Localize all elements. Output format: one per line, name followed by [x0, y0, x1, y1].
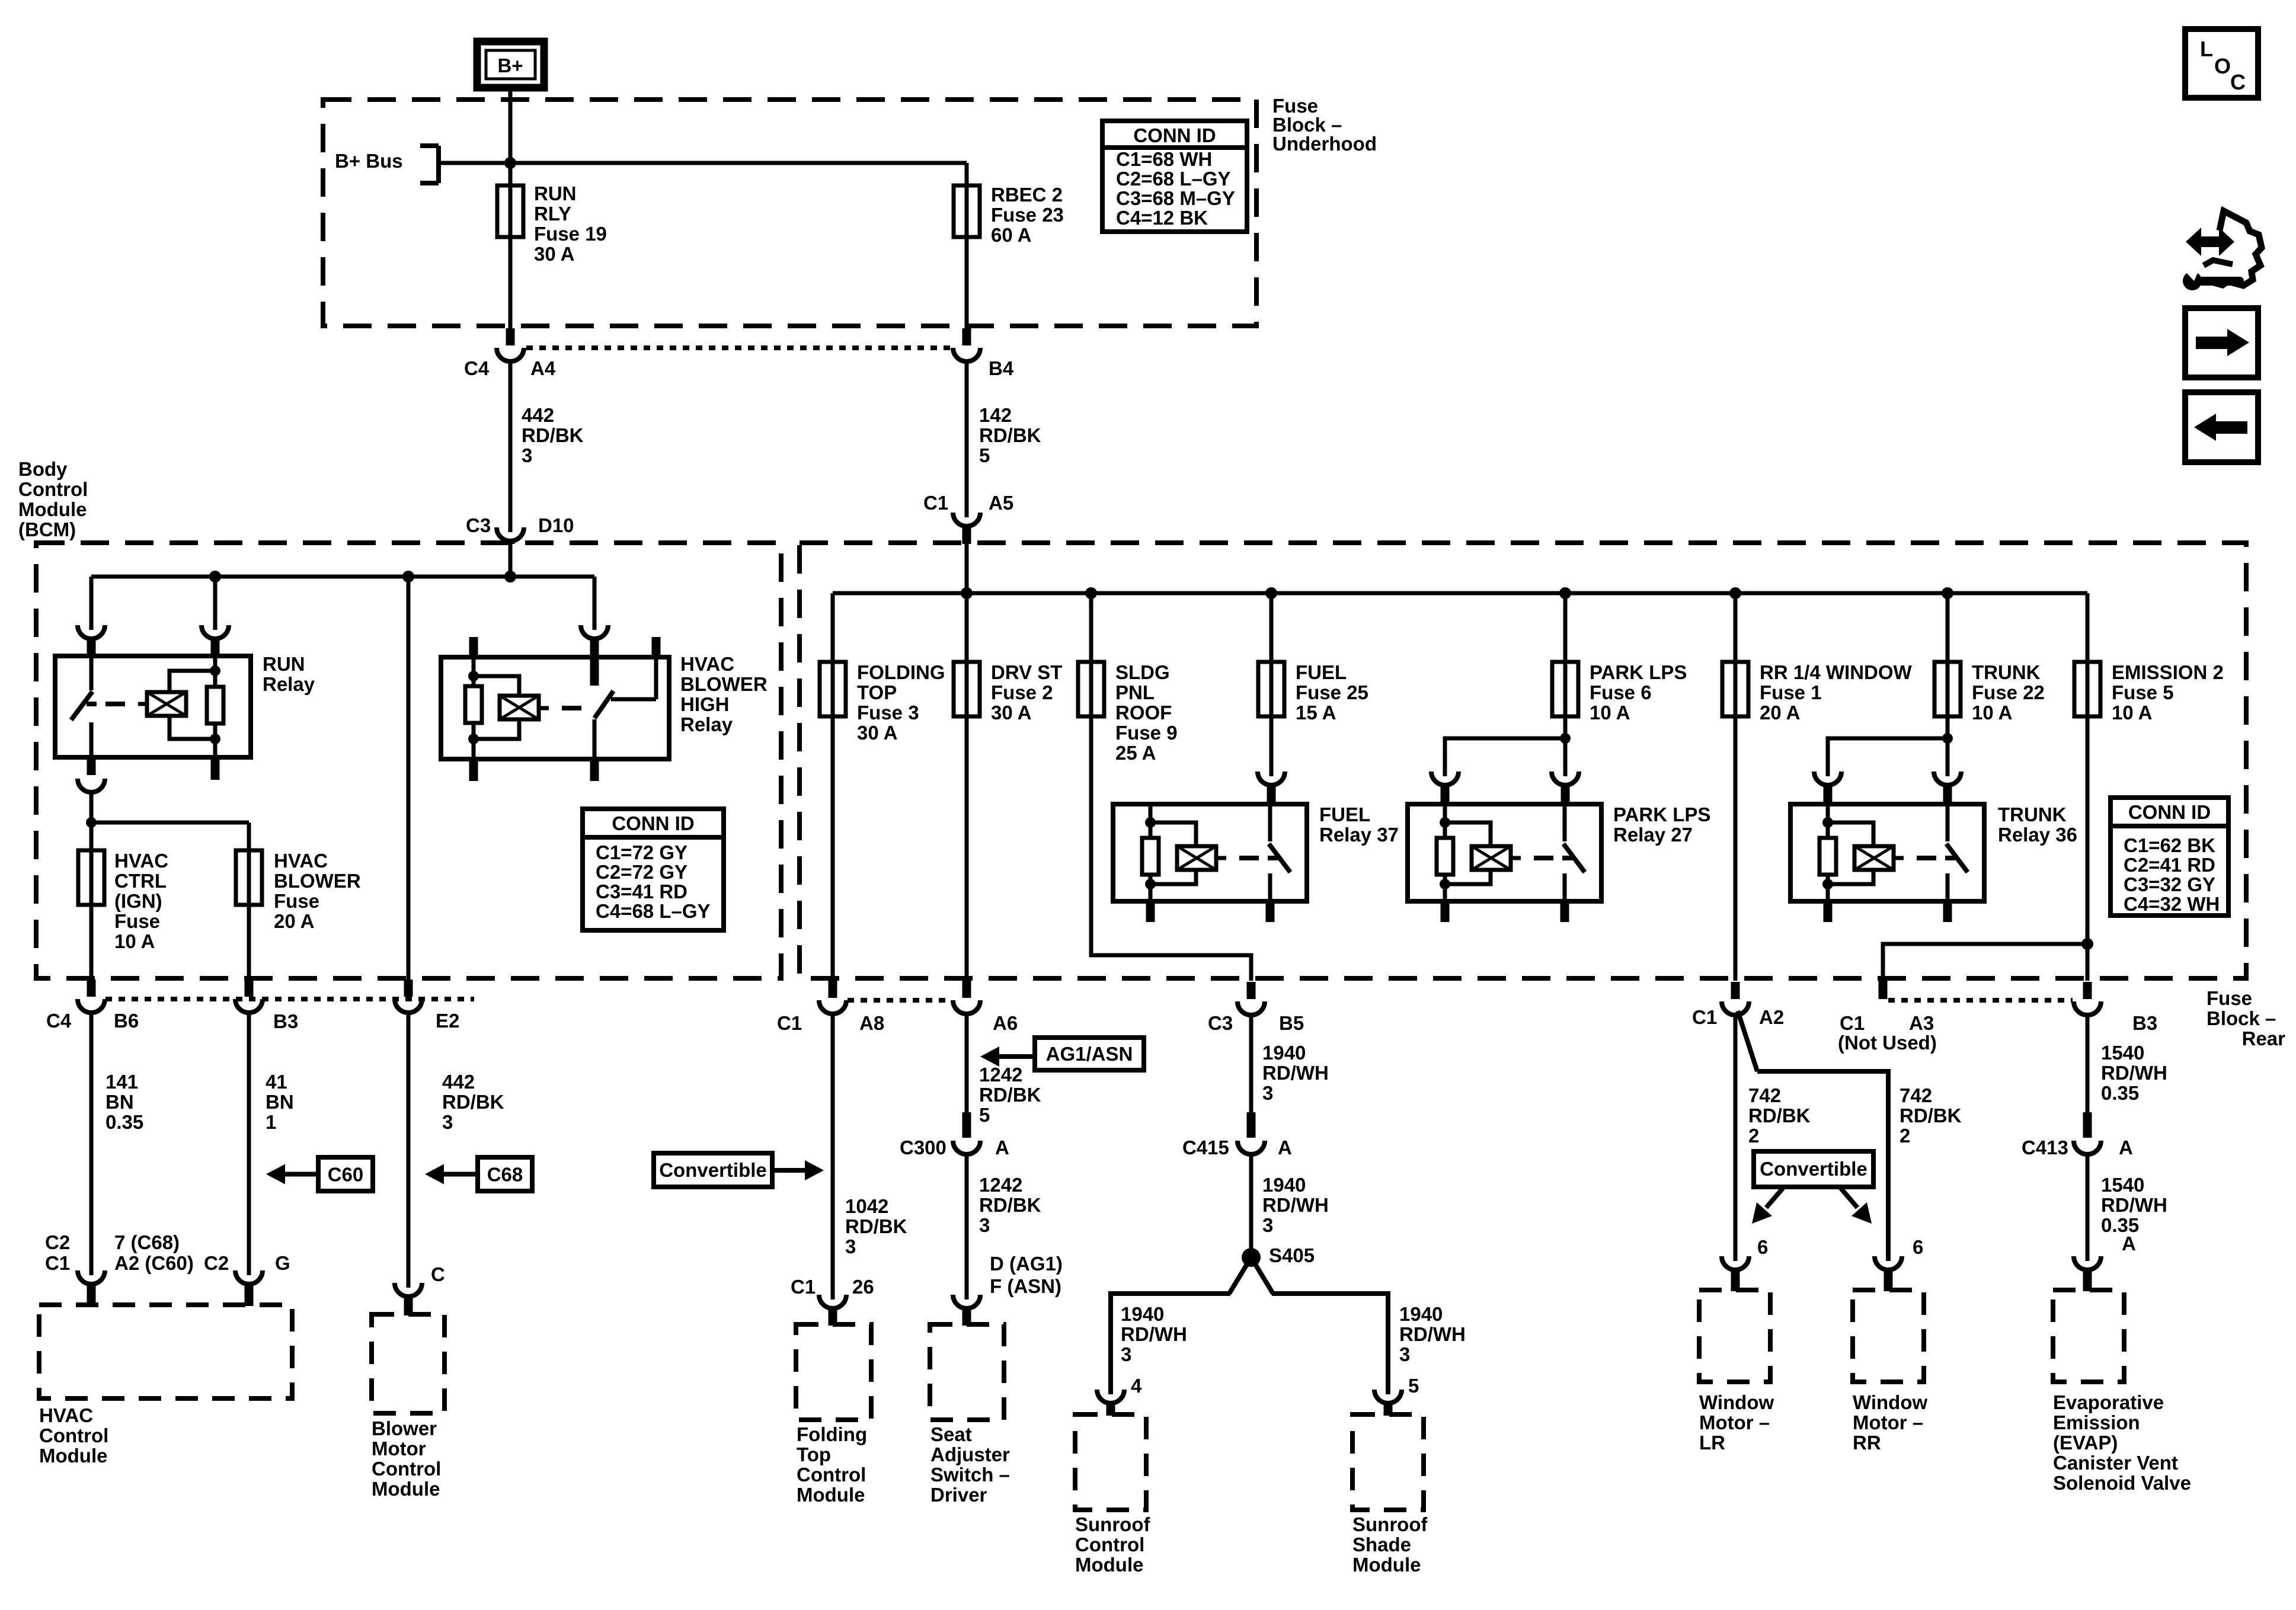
- svg-text:B+ Bus: B+ Bus: [335, 150, 403, 172]
- svg-text:BN: BN: [266, 1091, 294, 1113]
- svg-text:1940: 1940: [1262, 1042, 1306, 1064]
- svg-text:10 A: 10 A: [114, 930, 155, 952]
- svg-text:FUEL: FUEL: [1319, 804, 1370, 825]
- svg-text:Folding: Folding: [797, 1423, 867, 1445]
- svg-text:1: 1: [266, 1111, 276, 1133]
- svg-text:10 A: 10 A: [1972, 702, 2012, 724]
- svg-text:Motor: Motor: [372, 1438, 426, 1459]
- svg-text:30 A: 30 A: [534, 243, 574, 265]
- svg-text:Fuse 2: Fuse 2: [991, 681, 1053, 703]
- svg-text:C1=72 GY: C1=72 GY: [596, 841, 687, 863]
- svg-text:C3=41 RD: C3=41 RD: [596, 881, 687, 902]
- svg-text:A6: A6: [993, 1012, 1018, 1034]
- svg-text:(BCM): (BCM): [18, 518, 76, 540]
- svg-text:1242: 1242: [979, 1064, 1022, 1086]
- svg-text:E2: E2: [436, 1010, 459, 1032]
- svg-text:20 A: 20 A: [1760, 702, 1800, 724]
- svg-text:C2: C2: [45, 1231, 70, 1253]
- svg-text:Module: Module: [18, 498, 87, 520]
- svg-text:Convertible: Convertible: [659, 1159, 767, 1181]
- svg-text:G: G: [275, 1252, 290, 1274]
- svg-text:RD/WH: RD/WH: [2101, 1194, 2167, 1216]
- svg-text:Relay: Relay: [263, 673, 315, 695]
- svg-text:B3: B3: [2132, 1012, 2157, 1034]
- svg-text:10 A: 10 A: [2112, 702, 2152, 724]
- svg-text:C1: C1: [791, 1276, 816, 1298]
- svg-text:C2: C2: [204, 1252, 229, 1274]
- svg-text:Relay 27: Relay 27: [1613, 824, 1693, 846]
- svg-text:HVAC: HVAC: [274, 850, 328, 872]
- svg-text:C413: C413: [2022, 1137, 2068, 1158]
- svg-text:0.35: 0.35: [105, 1111, 143, 1133]
- svg-text:742: 742: [1900, 1084, 1932, 1106]
- svg-text:A2: A2: [1759, 1006, 1784, 1028]
- svg-text:DRV ST: DRV ST: [991, 661, 1062, 683]
- svg-text:Rear: Rear: [2242, 1028, 2286, 1049]
- svg-text:RUN: RUN: [263, 653, 305, 675]
- svg-text:15 A: 15 A: [1296, 702, 1336, 724]
- svg-text:C3: C3: [466, 514, 491, 536]
- svg-text:B4: B4: [989, 357, 1014, 379]
- svg-text:10 A: 10 A: [1590, 702, 1630, 724]
- svg-text:AG1/ASN: AG1/ASN: [1046, 1043, 1133, 1065]
- svg-text:C3=32 GY: C3=32 GY: [2124, 873, 2215, 895]
- svg-text:TRUNK: TRUNK: [1972, 661, 2041, 683]
- svg-text:142: 142: [979, 404, 1012, 426]
- svg-text:PARK LPS: PARK LPS: [1613, 804, 1710, 825]
- svg-text:A: A: [995, 1137, 1009, 1158]
- svg-text:Relay 37: Relay 37: [1319, 824, 1399, 846]
- svg-text:442: 442: [442, 1071, 475, 1093]
- svg-text:A4: A4: [530, 357, 556, 379]
- svg-text:Motor –: Motor –: [1853, 1411, 1923, 1433]
- svg-text:RLY: RLY: [534, 203, 571, 225]
- svg-text:BN: BN: [105, 1091, 134, 1113]
- svg-text:1940: 1940: [1262, 1174, 1306, 1196]
- svg-text:C1: C1: [777, 1012, 802, 1034]
- svg-text:D (AG1): D (AG1): [990, 1253, 1063, 1275]
- svg-text:20 A: 20 A: [274, 910, 314, 932]
- svg-text:30 A: 30 A: [857, 722, 897, 744]
- svg-text:RR 1/4 WINDOW: RR 1/4 WINDOW: [1760, 661, 1913, 683]
- svg-text:4: 4: [1131, 1375, 1142, 1397]
- svg-text:A2 (C60): A2 (C60): [114, 1252, 194, 1274]
- svg-text:C1: C1: [923, 492, 948, 514]
- svg-text:C4=68 L–GY: C4=68 L–GY: [596, 900, 711, 922]
- svg-text:0.35: 0.35: [2101, 1082, 2139, 1104]
- svg-text:C300: C300: [900, 1137, 946, 1158]
- svg-text:3: 3: [979, 1214, 990, 1236]
- svg-text:RD/WH: RD/WH: [1399, 1323, 1466, 1345]
- svg-text:Emission: Emission: [2053, 1411, 2140, 1433]
- svg-text:BLOWER: BLOWER: [274, 870, 361, 892]
- svg-text:S405: S405: [1269, 1244, 1315, 1266]
- svg-text:Module: Module: [797, 1484, 865, 1506]
- svg-text:Canister Vent: Canister Vent: [2053, 1452, 2178, 1474]
- svg-text:25 A: 25 A: [1115, 742, 1156, 764]
- svg-text:C4=12 BK: C4=12 BK: [1116, 207, 1208, 229]
- svg-text:Switch –: Switch –: [930, 1464, 1010, 1486]
- svg-text:Fuse 25: Fuse 25: [1296, 681, 1368, 703]
- svg-text:RD/WH: RD/WH: [2101, 1062, 2167, 1084]
- svg-text:Relay 36: Relay 36: [1998, 824, 2077, 846]
- svg-text:Window: Window: [1853, 1391, 1927, 1413]
- svg-text:C: C: [2230, 70, 2246, 94]
- svg-text:TRUNK: TRUNK: [1998, 804, 2067, 825]
- svg-text:A8: A8: [859, 1012, 884, 1034]
- svg-text:Motor –: Motor –: [1699, 1411, 1770, 1433]
- svg-text:C: C: [431, 1263, 445, 1285]
- svg-text:RD/BK: RD/BK: [522, 424, 584, 446]
- svg-text:742: 742: [1748, 1084, 1781, 1106]
- svg-text:3: 3: [845, 1235, 856, 1257]
- svg-text:2: 2: [1900, 1125, 1910, 1147]
- svg-text:Block –: Block –: [2207, 1007, 2276, 1029]
- svg-text:Module: Module: [39, 1445, 107, 1467]
- svg-text:FOLDING: FOLDING: [857, 661, 945, 683]
- svg-text:CONN ID: CONN ID: [612, 812, 694, 834]
- svg-text:5: 5: [979, 1104, 990, 1126]
- svg-text:3: 3: [1399, 1343, 1410, 1365]
- svg-text:A: A: [2122, 1233, 2136, 1254]
- svg-text:B5: B5: [1279, 1012, 1304, 1034]
- svg-text:(EVAP): (EVAP): [2053, 1432, 2118, 1454]
- svg-text:141: 141: [105, 1071, 138, 1093]
- svg-text:RD/WH: RD/WH: [1262, 1194, 1329, 1216]
- svg-text:ROOF: ROOF: [1115, 702, 1172, 724]
- svg-text:Fuse 3: Fuse 3: [857, 702, 919, 724]
- svg-text:RD/WH: RD/WH: [1262, 1062, 1329, 1084]
- svg-text:D10: D10: [538, 514, 574, 536]
- svg-text:EMISSION 2: EMISSION 2: [2112, 661, 2224, 683]
- svg-text:Adjuster: Adjuster: [930, 1443, 1010, 1465]
- svg-text:Fuse 19: Fuse 19: [534, 223, 607, 245]
- svg-text:C1=62 BK: C1=62 BK: [2124, 834, 2215, 856]
- svg-text:RD/BK: RD/BK: [1900, 1105, 1962, 1126]
- svg-text:HVAC: HVAC: [39, 1404, 93, 1426]
- svg-text:Fuse: Fuse: [114, 910, 160, 932]
- svg-text:Fuse: Fuse: [2207, 987, 2252, 1009]
- svg-text:Relay: Relay: [680, 713, 733, 735]
- svg-text:Driver: Driver: [930, 1484, 987, 1506]
- svg-text:C60: C60: [328, 1164, 364, 1186]
- svg-text:7 (C68): 7 (C68): [114, 1231, 180, 1253]
- svg-text:Body: Body: [18, 458, 68, 480]
- svg-text:CONN ID: CONN ID: [1133, 124, 1216, 146]
- svg-text:RD/WH: RD/WH: [1121, 1323, 1187, 1345]
- svg-text:C3=68 M–GY: C3=68 M–GY: [1116, 187, 1235, 209]
- svg-text:Fuse 1: Fuse 1: [1760, 681, 1822, 703]
- svg-text:CONN ID: CONN ID: [2128, 801, 2211, 823]
- svg-text:3: 3: [442, 1111, 453, 1133]
- svg-text:41: 41: [266, 1071, 287, 1093]
- svg-text:RD/BK: RD/BK: [442, 1091, 504, 1113]
- svg-text:RD/BK: RD/BK: [979, 424, 1041, 446]
- svg-text:C4: C4: [46, 1010, 72, 1032]
- svg-text:C4: C4: [464, 357, 490, 379]
- svg-text:1540: 1540: [2101, 1042, 2144, 1064]
- svg-text:B6: B6: [114, 1010, 139, 1032]
- svg-text:C2=72 GY: C2=72 GY: [596, 861, 687, 883]
- svg-text:Window: Window: [1699, 1391, 1774, 1413]
- svg-text:HVAC: HVAC: [114, 850, 168, 872]
- svg-text:Fuse 6: Fuse 6: [1590, 681, 1652, 703]
- svg-text:RD/BK: RD/BK: [1748, 1105, 1811, 1126]
- svg-text:Fuse 9: Fuse 9: [1115, 722, 1178, 744]
- svg-text:Fuse 5: Fuse 5: [2112, 681, 2174, 703]
- svg-text:6: 6: [1913, 1236, 1923, 1258]
- svg-text:Module: Module: [372, 1478, 440, 1500]
- svg-text:O: O: [2214, 54, 2231, 78]
- svg-text:1042: 1042: [845, 1195, 888, 1217]
- svg-text:(Not Used): (Not Used): [1838, 1032, 1937, 1054]
- svg-text:RUN: RUN: [534, 183, 577, 204]
- svg-text:A: A: [2119, 1137, 2133, 1158]
- svg-text:1940: 1940: [1399, 1303, 1443, 1325]
- svg-text:C415: C415: [1182, 1137, 1229, 1158]
- svg-text:442: 442: [522, 404, 554, 426]
- svg-text:Control: Control: [372, 1458, 441, 1480]
- svg-text:1940: 1940: [1121, 1303, 1164, 1325]
- svg-text:26: 26: [852, 1276, 874, 1298]
- svg-text:60 A: 60 A: [991, 224, 1031, 246]
- svg-text:HIGH: HIGH: [680, 693, 730, 715]
- svg-text:3: 3: [1121, 1343, 1131, 1365]
- svg-text:RD/BK: RD/BK: [979, 1084, 1041, 1106]
- svg-text:Module: Module: [1352, 1554, 1421, 1576]
- svg-text:Underhood: Underhood: [1272, 133, 1377, 155]
- svg-text:6: 6: [1757, 1236, 1768, 1258]
- svg-text:1540: 1540: [2101, 1174, 2144, 1196]
- svg-text:RD/BK: RD/BK: [979, 1194, 1041, 1216]
- svg-text:Control: Control: [39, 1425, 108, 1446]
- svg-text:C2=41 RD: C2=41 RD: [2124, 854, 2215, 876]
- svg-text:C4=32 WH: C4=32 WH: [2124, 893, 2220, 915]
- svg-text:Control: Control: [1075, 1534, 1144, 1555]
- svg-text:3: 3: [1262, 1082, 1273, 1104]
- svg-text:TOP: TOP: [857, 681, 897, 703]
- svg-text:C68: C68: [487, 1164, 523, 1186]
- svg-text:L: L: [2200, 37, 2213, 61]
- svg-text:Fuse 22: Fuse 22: [1972, 681, 2045, 703]
- svg-text:CTRL: CTRL: [114, 870, 167, 892]
- svg-text:C1: C1: [1692, 1006, 1717, 1028]
- svg-text:(IGN): (IGN): [114, 890, 162, 912]
- svg-text:3: 3: [522, 444, 532, 466]
- svg-text:A: A: [1278, 1137, 1292, 1158]
- svg-text:Module: Module: [1075, 1554, 1143, 1576]
- svg-text:C1: C1: [45, 1252, 70, 1274]
- svg-text:C2=68 L–GY: C2=68 L–GY: [1116, 168, 1231, 190]
- svg-text:Sunroof: Sunroof: [1075, 1513, 1150, 1535]
- svg-text:HVAC: HVAC: [680, 653, 734, 675]
- svg-text:F (ASN): F (ASN): [990, 1275, 1061, 1297]
- svg-text:Top: Top: [797, 1443, 831, 1465]
- svg-text:Evaporative: Evaporative: [2053, 1391, 2164, 1413]
- svg-text:Control: Control: [797, 1464, 866, 1486]
- svg-text:LR: LR: [1699, 1432, 1725, 1454]
- svg-text:RD/BK: RD/BK: [845, 1215, 907, 1237]
- svg-text:1242: 1242: [979, 1174, 1022, 1196]
- svg-text:2: 2: [1748, 1125, 1759, 1147]
- svg-text:Blower: Blower: [372, 1417, 437, 1439]
- svg-text:RR: RR: [1853, 1432, 1881, 1454]
- svg-text:Solenoid Valve: Solenoid Valve: [2053, 1472, 2191, 1494]
- svg-text:Convertible: Convertible: [1760, 1158, 1868, 1180]
- svg-text:Seat: Seat: [930, 1423, 972, 1445]
- svg-text:Fuse: Fuse: [274, 890, 319, 912]
- svg-text:BLOWER: BLOWER: [680, 673, 768, 695]
- svg-text:C1: C1: [1840, 1012, 1865, 1034]
- svg-text:Fuse 23: Fuse 23: [991, 204, 1064, 226]
- svg-text:Sunroof: Sunroof: [1352, 1513, 1428, 1535]
- svg-text:Control: Control: [18, 478, 88, 500]
- svg-text:PNL: PNL: [1115, 681, 1155, 703]
- svg-text:B+: B+: [497, 55, 523, 76]
- svg-text:RBEC 2: RBEC 2: [991, 184, 1063, 206]
- svg-text:A3: A3: [1909, 1012, 1934, 1034]
- svg-text:SLDG: SLDG: [1115, 661, 1170, 683]
- svg-text:3: 3: [1262, 1214, 1273, 1236]
- svg-text:A5: A5: [989, 492, 1013, 514]
- svg-text:PARK LPS: PARK LPS: [1590, 661, 1687, 683]
- svg-text:B3: B3: [273, 1010, 298, 1032]
- svg-text:Shade: Shade: [1352, 1534, 1411, 1555]
- svg-text:5: 5: [1408, 1375, 1419, 1397]
- svg-text:30 A: 30 A: [991, 702, 1031, 724]
- svg-text:C1=68 WH: C1=68 WH: [1116, 148, 1212, 170]
- svg-text:FUEL: FUEL: [1296, 661, 1347, 683]
- svg-text:5: 5: [979, 444, 990, 466]
- svg-text:C3: C3: [1208, 1012, 1233, 1034]
